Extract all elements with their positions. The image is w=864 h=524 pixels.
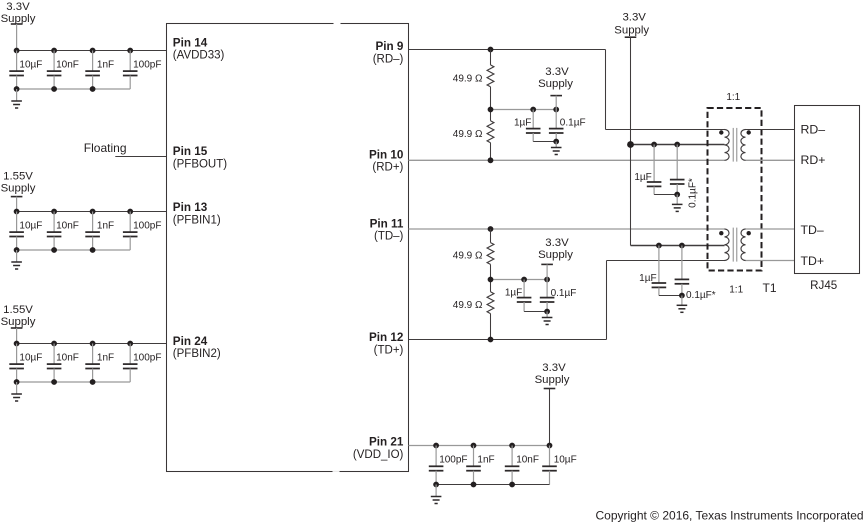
svg-text:Pin 21: Pin 21 — [369, 436, 404, 449]
node dot return g2.2 — [51, 247, 57, 253]
svg-text:Pin 15: Pin 15 — [173, 145, 208, 158]
wire: Floating to Pin 15 — [115, 156, 166, 158]
svg-text:10µF: 10µF — [19, 221, 42, 232]
wire: supply rail to Pin 13 — [17, 211, 167, 213]
resistor R1 49.9 ohm — [487, 50, 494, 110]
supply symbol (group 1) — [11, 24, 23, 51]
node dot VDD_IO rail 1 — [433, 443, 439, 449]
supply symbol (center tap) — [625, 37, 637, 245]
node dot return g1.1 — [14, 86, 20, 92]
node dot rail g1.2 — [51, 48, 57, 54]
pin label Pin 12 (TD+) — [369, 331, 404, 356]
resistor R4 49.9 ohm — [487, 280, 494, 340]
capacitor 1uF (TD ct) — [652, 246, 667, 296]
supply symbol (VDD_IO) — [544, 389, 556, 446]
wire: ct cap bottoms join RD — [654, 194, 677, 196]
svg-text:Supply: Supply — [535, 374, 570, 386]
capacitor 1nF (group 1) — [85, 51, 100, 90]
svg-text:3.3V: 3.3V — [542, 362, 566, 374]
svg-text:Floating: Floating — [84, 141, 127, 155]
wire: supply rail to Pin 24 — [17, 343, 167, 345]
capacitor 100pF (group 3) — [123, 344, 138, 383]
node dot rail g1.3 — [90, 48, 96, 54]
transformer RD core — [733, 128, 736, 162]
node dot RD+ / R2 — [488, 157, 494, 163]
node dot return g3.3 — [90, 379, 96, 385]
svg-text:10nF: 10nF — [56, 221, 79, 232]
svg-text:(PFBOUT): (PFBOUT) — [173, 158, 227, 170]
capacitor 1uF (RD term) — [526, 110, 541, 142]
svg-text:1µF: 1µF — [634, 172, 651, 183]
capacitor 1nF (VDD_IO) — [466, 446, 481, 485]
capacitor 1uF (TD term) — [517, 280, 532, 312]
node dot TD+ / R4 — [488, 337, 494, 343]
svg-text:10µF: 10µF — [554, 454, 577, 465]
svg-text:Supply: Supply — [538, 249, 573, 261]
pin label Pin 15 (PFBOUT) — [173, 145, 227, 170]
svg-text:1nF: 1nF — [97, 353, 114, 364]
supply 3.3V (VDD_IO) label — [535, 362, 570, 386]
capacitor 10µF (group 3) — [9, 344, 24, 383]
supply 3.3V (center tap) label — [614, 12, 649, 37]
node dot 0.1uF TD ct — [679, 243, 685, 249]
wire: TD center tap — [631, 245, 725, 247]
node dot return g2.3 — [90, 247, 96, 253]
pin label Pin 10 (RD+) — [369, 148, 404, 173]
transformer TD secondary winding — [741, 229, 746, 261]
capacitor 100pF (group 1) — [123, 51, 138, 90]
svg-text:1.55V: 1.55V — [3, 170, 33, 182]
transformer RD primary winding — [725, 130, 730, 161]
svg-text:Pin 11: Pin 11 — [370, 217, 404, 230]
svg-text:1:1: 1:1 — [726, 92, 740, 103]
wire: TD termination midpoint — [491, 279, 548, 281]
svg-text:100pF: 100pF — [439, 454, 467, 465]
svg-text:RD–: RD– — [801, 122, 826, 136]
IC U1 box — [167, 22, 409, 473]
node dot rail g3.1 — [14, 341, 20, 347]
svg-text:1µF: 1µF — [639, 273, 656, 284]
svg-text:Pin 14: Pin 14 — [173, 36, 208, 49]
pin label Pin 9 (RD–) — [373, 40, 404, 65]
capacitor 10µF (group 1) — [9, 51, 24, 90]
svg-text:49.9 Ω: 49.9 Ω — [453, 300, 483, 311]
supply symbol (group 2) — [11, 197, 23, 212]
capacitor 10µF (VDD_IO) — [542, 446, 557, 485]
pin label Pin 21 (VDD_IO) — [353, 436, 404, 461]
resistor R2 49.9 ohm — [487, 110, 494, 161]
svg-text:(AVDD33): (AVDD33) — [173, 50, 225, 62]
wire: TD+ vertical — [606, 261, 608, 340]
capacitor 10nF (group 2) — [47, 212, 62, 251]
capacitor 0.1uF* (RD ct) — [670, 145, 685, 195]
node dot rail g2.3 — [90, 209, 96, 215]
ground (VDD_IO) — [431, 485, 442, 504]
svg-text:T1: T1 — [763, 281, 777, 295]
svg-text:Supply: Supply — [614, 25, 649, 37]
supply symbol (group 3) — [11, 328, 23, 344]
svg-text:(TD–): (TD–) — [374, 231, 404, 243]
wire: RD termination midpoint — [491, 109, 557, 111]
wire: RD- secondary to RJ45 — [746, 129, 795, 131]
node dot return g1.2 — [51, 86, 57, 92]
svg-text:(VDD_IO): (VDD_IO) — [353, 449, 404, 461]
wire: Pin 21 row — [409, 445, 550, 447]
node dot ct join RD — [674, 192, 680, 198]
svg-text:1.55V: 1.55V — [3, 304, 33, 316]
svg-text:0.1µF: 0.1µF — [560, 117, 586, 128]
wire: Pin 10 RD+ row to transformer — [409, 159, 725, 161]
wire: cap bottoms join TD — [524, 311, 547, 313]
ground (RD term) — [551, 142, 562, 155]
node dot TD- / R3 — [488, 226, 494, 232]
svg-text:1nF: 1nF — [477, 454, 494, 465]
svg-text:Pin 10: Pin 10 — [369, 148, 404, 161]
node dot rail g3.3 — [90, 341, 96, 347]
capacitor 1uF (RD ct) — [647, 145, 662, 195]
wire: Pin 11 TD- row to transformer — [409, 228, 725, 230]
phase dot RD secondary — [747, 130, 751, 134]
svg-text:Pin 9: Pin 9 — [375, 40, 403, 53]
wire: ground return row (group 2) — [17, 249, 131, 251]
svg-text:3.3V: 3.3V — [545, 66, 569, 78]
capacitor 0.1uF (RD term) — [549, 110, 564, 142]
svg-text:1nF: 1nF — [97, 221, 114, 232]
svg-text:0.1µF*: 0.1µF* — [688, 178, 699, 208]
node dot return g2.1 — [14, 247, 20, 253]
node dot midpoint TD — [488, 277, 494, 283]
svg-text:3.3V: 3.3V — [622, 12, 646, 24]
svg-text:Pin 24: Pin 24 — [173, 335, 208, 348]
svg-text:RJ45: RJ45 — [810, 279, 837, 292]
node dot rail g2.4 — [127, 209, 133, 215]
resistor R3 49.9 ohm — [487, 229, 494, 280]
node dot ct join TD — [679, 293, 685, 299]
svg-text:3.3V: 3.3V — [545, 237, 569, 249]
svg-text:0.1µF: 0.1µF — [551, 288, 577, 299]
capacitor 10nF (VDD_IO) — [505, 446, 520, 485]
node dot 0.1uF TD — [544, 277, 550, 283]
ground (group 3) — [11, 382, 22, 401]
wire: RD- vertical — [605, 50, 607, 130]
node dot 1uF RD — [530, 107, 536, 113]
node dot return g3.1 — [14, 379, 20, 385]
wire: RD center tap — [631, 144, 725, 146]
svg-text:Pin 12: Pin 12 — [369, 331, 404, 344]
capacitor 1nF (group 3) — [85, 344, 100, 383]
svg-text:(RD+): (RD+) — [372, 162, 403, 174]
wire: ct cap bottoms join TD — [659, 295, 682, 297]
wire: Pin 9 RD- row — [409, 49, 606, 51]
node dot VDD_IO return 2 — [471, 482, 477, 488]
phase dot TD primary — [719, 231, 723, 235]
phase dot TD secondary — [747, 231, 751, 235]
svg-text:10µF: 10µF — [19, 60, 42, 71]
wire: RD- to transformer primary top — [606, 129, 725, 131]
supply symbol (RD term) — [550, 96, 562, 110]
svg-text:10µF: 10µF — [19, 353, 42, 364]
transformer T1 dashed box — [708, 108, 762, 271]
wire: Pin 12 TD+ row — [409, 339, 607, 341]
ground (TD term) — [542, 312, 553, 325]
svg-text:1µF: 1µF — [514, 117, 531, 128]
node dot 1uF TD — [521, 277, 527, 283]
svg-text:Pin 13: Pin 13 — [173, 201, 208, 214]
node dot return g3.2 — [51, 379, 57, 385]
ground (RD ct) — [672, 195, 683, 212]
supply 3.3V (RD term) label — [538, 66, 573, 90]
node dot join RD — [553, 139, 559, 145]
node dot rail g1.1 — [14, 48, 20, 54]
wire: RD+ secondary to RJ45 — [746, 159, 795, 161]
RJ45 connector box — [795, 106, 860, 274]
phase dot RD primary — [719, 130, 723, 134]
svg-text:Supply: Supply — [1, 316, 36, 328]
node dot VDD_IO return 1 — [433, 482, 439, 488]
node dot rail g2.1 — [14, 209, 20, 215]
svg-text:49.9 Ω: 49.9 Ω — [453, 129, 483, 140]
ground (TD ct) — [677, 296, 688, 313]
wire: ground return row (group 1) — [17, 88, 131, 90]
node dot VDD_IO rail 4 — [547, 443, 553, 449]
node dot join TD — [544, 309, 550, 315]
wire: supply rail to Pin 14 — [17, 50, 167, 52]
svg-text:1nF: 1nF — [97, 60, 114, 71]
svg-text:10nF: 10nF — [56, 353, 79, 364]
svg-text:49.9 Ω: 49.9 Ω — [453, 73, 483, 84]
svg-text:10nF: 10nF — [56, 60, 79, 71]
node dot 0.1uF RD — [553, 107, 559, 113]
svg-text:(RD–): (RD–) — [373, 53, 404, 65]
svg-text:(PFBIN1): (PFBIN1) — [173, 214, 221, 226]
wire: VDD_IO ground return row — [436, 484, 549, 486]
svg-text:(TD+): (TD+) — [374, 344, 404, 356]
svg-text:10nF: 10nF — [516, 454, 539, 465]
node dot RD- / R1 — [488, 47, 494, 53]
svg-text:100pF: 100pF — [133, 221, 161, 232]
svg-text:Supply: Supply — [538, 78, 573, 90]
svg-text:100pF: 100pF — [133, 353, 161, 364]
wire: TD- secondary to RJ45 — [746, 228, 795, 230]
capacitor 10µF (group 2) — [9, 212, 24, 251]
svg-text:RD+: RD+ — [801, 153, 826, 167]
node dot VDD_IO return 3 — [509, 482, 515, 488]
svg-text:1:1: 1:1 — [729, 285, 743, 296]
node dot midpoint RD — [488, 107, 494, 113]
supply 3.3V (TD term) label — [538, 237, 573, 261]
node dot rail g2.2 — [51, 209, 57, 215]
pin label Pin 13 (PFBIN1) — [173, 201, 221, 226]
svg-text:Copyright © 2016, Texas Instru: Copyright © 2016, Texas Instruments Inco… — [595, 509, 863, 523]
svg-text:0.1µF*: 0.1µF* — [686, 290, 716, 301]
node dot 1uF RD ct — [651, 142, 657, 148]
node dot rail g3.4 — [127, 341, 133, 347]
supply symbol (TD term) — [541, 264, 553, 279]
wire: TD+ secondary to RJ45 — [746, 260, 795, 262]
node dot rail g1.4 — [127, 48, 133, 54]
pin label Pin 14 (AVDD33) — [173, 36, 225, 61]
svg-text:(PFBIN2): (PFBIN2) — [173, 348, 221, 360]
node dot VDD_IO rail 2 — [471, 443, 477, 449]
node dot rail g3.2 — [51, 341, 57, 347]
wire: TD+ to transformer primary bottom — [607, 260, 725, 262]
svg-text:TD–: TD– — [801, 223, 824, 237]
svg-text:Supply: Supply — [1, 182, 36, 194]
capacitor 0.1uF* (TD ct) — [675, 246, 690, 296]
pin label Pin 11 (TD–) — [370, 217, 404, 242]
capacitor 10nF (group 3) — [47, 344, 62, 383]
svg-text:1µF: 1µF — [505, 287, 522, 298]
pin label Pin 24 (PFBIN2) — [173, 335, 221, 360]
capacitor 0.1uF (TD term) — [540, 280, 555, 312]
transformer TD primary winding — [725, 229, 730, 261]
capacitor 10nF (group 1) — [47, 51, 62, 90]
svg-text:100pF: 100pF — [133, 60, 161, 71]
transformer RD secondary winding — [741, 130, 746, 161]
svg-text:49.9 Ω: 49.9 Ω — [453, 251, 483, 262]
wire: ground return row (group 3) — [17, 381, 131, 383]
capacitor 100pF (group 2) — [123, 212, 138, 251]
node dot return g1.3 — [90, 86, 96, 92]
ground (group 2) — [11, 250, 22, 269]
transformer TD core — [733, 228, 736, 262]
node dot supply/RD ct — [627, 141, 634, 148]
node dot VDD_IO rail 3 — [509, 443, 515, 449]
ground (group 1) — [11, 89, 22, 108]
svg-text:TD+: TD+ — [801, 254, 825, 268]
wire: cap bottoms join RD — [533, 141, 556, 143]
capacitor 1nF (group 2) — [85, 212, 100, 251]
node dot 0.1uF RD ct — [674, 142, 680, 148]
node dot 1uF TD ct — [656, 243, 662, 249]
capacitor 100pF (VDD_IO) — [429, 446, 444, 485]
svg-text:3.3V: 3.3V — [6, 1, 30, 13]
